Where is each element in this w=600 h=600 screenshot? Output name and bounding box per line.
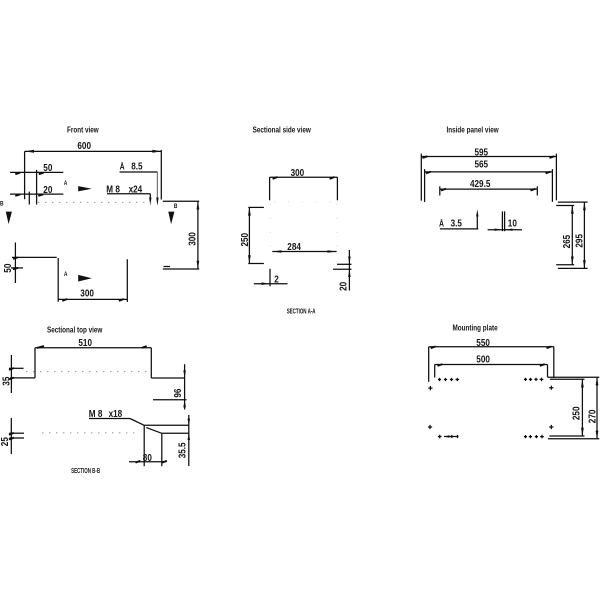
- dim vertical 25: [10, 418, 12, 454]
- dim line 35.5: [188, 415, 190, 466]
- leader line 3.5: [440, 228, 478, 230]
- extension 295 top: [558, 201, 588, 203]
- dim line 300 bottom: [58, 298, 127, 300]
- leader line M8x18: [89, 418, 130, 420]
- arrow 96 down: [183, 370, 186, 377]
- tick 565 right: [546, 172, 551, 174]
- leader vertical M8: [149, 194, 151, 199]
- svg-text:Mounting plate: Mounting plate: [453, 322, 498, 332]
- leader diagonal M8x18: [130, 419, 144, 426]
- tick 20 left: [15, 194, 20, 196]
- arrow 295 down: [583, 260, 586, 268]
- corner top edge: [144, 424, 189, 426]
- flange left top: [10, 377, 35, 379]
- dim line 295: [583, 202, 585, 268]
- arrow 250 up: [248, 208, 251, 216]
- arrow 270p up: [596, 377, 599, 385]
- dim line 2: [254, 283, 288, 285]
- svg-text:SECTION A-A: SECTION A-A: [287, 309, 316, 316]
- hidden top edge dotted: [38, 201, 152, 203]
- arrow 2: [262, 282, 270, 285]
- extension 300s left: [269, 177, 271, 200]
- svg-text:300: 300: [187, 232, 198, 246]
- extension 250 top: [248, 206, 264, 208]
- svg-text:595: 595: [475, 146, 489, 157]
- svg-text:SECTION B-B: SECTION B-B: [71, 468, 100, 475]
- cutout left edge: [57, 258, 59, 302]
- holes top-left group: [438, 378, 459, 381]
- flange right bottom: [153, 399, 187, 401]
- edge remnant right: [164, 266, 171, 268]
- tick 595 right: [550, 156, 555, 158]
- cutout right edge: [126, 259, 128, 302]
- holes top-right group: [524, 378, 543, 382]
- dim line 20 side: [348, 250, 350, 291]
- arrow 250p up: [581, 380, 584, 388]
- dim line 284: [272, 251, 336, 253]
- dim line 300 side: [270, 176, 338, 178]
- tick 500 left: [438, 364, 443, 366]
- arrow 270p down: [596, 431, 599, 439]
- tick 565 left: [426, 172, 431, 174]
- svg-text:25: 25: [0, 437, 10, 446]
- panel left edge outer: [420, 154, 422, 201]
- tick 35 top: [9, 368, 14, 370]
- extension 429.5 left: [439, 186, 441, 195]
- svg-text:35.5: 35.5: [176, 442, 187, 458]
- arrow 300 down: [197, 261, 200, 269]
- dim line 250: [248, 207, 250, 263]
- svg-text:x18: x18: [109, 408, 123, 419]
- extension 500 right: [547, 365, 549, 378]
- arrow 265 down: [571, 257, 574, 265]
- tick 50 right: [39, 173, 44, 175]
- extension line x36.6: [36, 170, 38, 205]
- dim line 250 plate: [581, 379, 583, 436]
- svg-text:M 8: M 8: [89, 408, 103, 419]
- arrow 20s up: [348, 270, 351, 277]
- arrow 20s down: [348, 257, 351, 264]
- svg-text:Front view: Front view: [67, 124, 99, 134]
- extension 429.5 right: [536, 186, 538, 195]
- extension line right of 600: [160, 150, 162, 200]
- dim line 600: [25, 150, 162, 152]
- tick 50 left: [15, 173, 20, 175]
- arrow 250 down: [248, 255, 251, 263]
- holes bottom-left arrow group: [438, 435, 459, 439]
- dim line 265: [571, 206, 573, 265]
- extension line 50 top: [12, 256, 57, 258]
- svg-text:96: 96: [172, 389, 183, 398]
- hole single bottom-right: [549, 425, 553, 429]
- svg-text:284: 284: [287, 241, 301, 252]
- body left edge: [34, 348, 36, 378]
- leader arrow 8.5: [156, 198, 158, 206]
- tick 500 right: [540, 364, 545, 366]
- dim line 550: [429, 346, 554, 348]
- svg-text:Sectional side view: Sectional side view: [253, 124, 311, 134]
- panel right edge outer: [555, 154, 557, 201]
- extension 25 bottom: [9, 437, 24, 439]
- hidden line bottom dotted: [42, 432, 139, 434]
- extension 265 bottom: [556, 264, 574, 266]
- arrow 295 up: [583, 202, 586, 210]
- tick 550 left: [431, 346, 436, 348]
- dim line 595: [421, 156, 556, 158]
- hole single top-right: [549, 386, 553, 390]
- extension 25 top: [9, 432, 24, 434]
- svg-text:565: 565: [475, 159, 489, 170]
- slot line right: [504, 211, 506, 231]
- section arrow B right: [168, 212, 174, 225]
- leader arrow M8: [149, 198, 151, 206]
- dim line 50: [10, 171, 63, 173]
- extension 20 bottom: [333, 268, 351, 270]
- tick 50b bottom: [13, 268, 18, 270]
- hidden line top dotted: [26, 371, 151, 373]
- extension 250 bottom: [549, 435, 584, 437]
- leader vertical 8.5: [156, 172, 158, 199]
- dim line 96: [184, 364, 186, 409]
- extension 250 bottom: [248, 263, 264, 265]
- body right edge: [150, 348, 152, 378]
- slot line left: [501, 211, 503, 231]
- plate step top: [548, 376, 600, 378]
- svg-text:250: 250: [571, 407, 582, 421]
- flange right top: [151, 377, 185, 379]
- dim line 80: [129, 461, 165, 463]
- arrow 284 right: [328, 250, 337, 253]
- tick 300s right: [330, 177, 335, 179]
- tick 550 right: [547, 346, 552, 348]
- extension 270 bottom: [548, 438, 599, 440]
- dim line 565: [425, 171, 553, 173]
- svg-text:Sectional top view: Sectional top view: [47, 324, 102, 334]
- svg-text:35: 35: [1, 377, 12, 386]
- svg-text:300: 300: [291, 167, 305, 178]
- tick 50b top: [13, 257, 18, 259]
- tick 20 right: [38, 194, 43, 196]
- corner inner edge: [161, 433, 163, 466]
- tick 80 right: [162, 461, 167, 463]
- tick 300s left: [273, 177, 278, 179]
- arrow 35.5 up: [188, 433, 191, 440]
- extension line 50 bottom: [11, 267, 23, 269]
- extension line left of 600: [24, 151, 26, 199]
- tick 595 left: [423, 156, 428, 158]
- section arrow A bottom: [78, 275, 92, 282]
- extension 265 top: [556, 205, 574, 207]
- svg-text:270: 270: [587, 410, 598, 424]
- svg-text:B: B: [174, 203, 178, 210]
- extension line 300 top: [163, 200, 199, 202]
- extension 20 top: [337, 263, 352, 265]
- extension 550 right: [553, 347, 555, 378]
- corner left edge: [143, 425, 145, 466]
- arrow 96 up: [183, 400, 186, 407]
- arrow 10 right: [495, 229, 503, 231]
- tick 25 bottom: [9, 438, 14, 440]
- arrow 265 up: [571, 206, 574, 214]
- panel left edge inner: [424, 169, 426, 202]
- hidden right wall dotted: [336, 204, 338, 248]
- svg-text:20: 20: [338, 282, 349, 291]
- tick 510 left: [37, 346, 44, 348]
- svg-text:Inside panel view: Inside panel view: [447, 124, 499, 134]
- arrow 250p down: [581, 428, 584, 436]
- hidden top edge dotted side: [274, 201, 334, 203]
- dim line 429.5: [440, 188, 538, 190]
- section arrow A top: [78, 186, 92, 191]
- dim line 10: [488, 229, 522, 231]
- svg-text:295: 295: [574, 234, 585, 248]
- tick 429.5 right: [531, 189, 536, 191]
- corner chamfer: [146, 428, 162, 434]
- leader vertical 3.5: [476, 215, 478, 229]
- extension line x29.3: [28, 192, 30, 205]
- svg-text:2: 2: [274, 273, 279, 284]
- holes bottom-right group: [524, 435, 544, 439]
- svg-text:600: 600: [77, 140, 91, 151]
- tick 510 right: [142, 346, 147, 348]
- extension 295 bottom: [558, 267, 588, 269]
- extension line 300 bottom: [163, 268, 199, 270]
- panel edge vertical 2: [269, 269, 271, 287]
- svg-text:20: 20: [43, 184, 52, 195]
- extension 35 top: [9, 367, 24, 369]
- extension 250 top: [550, 378, 585, 380]
- dim vertical 35: [10, 355, 12, 393]
- tick 35 bottom: [9, 378, 14, 380]
- corner inner top: [162, 432, 189, 434]
- svg-text:10: 10: [508, 218, 517, 229]
- svg-text:8.5: 8.5: [131, 161, 142, 172]
- svg-text:300: 300: [80, 288, 94, 299]
- svg-text:500: 500: [476, 354, 490, 365]
- tick 429.5 left: [441, 189, 446, 191]
- tick 80 left: [136, 461, 141, 463]
- hole single top-left: [428, 386, 432, 390]
- svg-text:3.5: 3.5: [451, 218, 462, 229]
- leader line M8: [107, 193, 150, 195]
- leader line 8.5: [120, 171, 158, 173]
- arrow 600 left: [25, 150, 34, 153]
- dim vertical 50 left bottom: [14, 243, 16, 284]
- extension 550 left: [428, 347, 430, 382]
- dim line 500: [435, 364, 548, 366]
- svg-text:B: B: [0, 201, 4, 208]
- tick 25 top: [9, 433, 14, 435]
- dim line 300 right: [197, 201, 199, 269]
- svg-text:Å: Å: [120, 162, 125, 172]
- tick 300b left: [62, 299, 67, 301]
- dim line 510: [35, 347, 151, 349]
- leader arrow 3.5 up: [476, 209, 478, 216]
- svg-text:429.5: 429.5: [470, 178, 490, 189]
- dim line 20: [10, 193, 63, 195]
- svg-text:250: 250: [239, 233, 250, 247]
- hole single bottom-left: [428, 425, 432, 429]
- hidden left wall dotted: [269, 204, 271, 256]
- arrow 300 up: [197, 202, 200, 210]
- svg-text:510: 510: [78, 337, 92, 348]
- arrow 284 left: [272, 250, 281, 253]
- arrow 10 left: [505, 229, 513, 231]
- svg-text:265: 265: [561, 235, 572, 249]
- panel right edge inner: [551, 169, 553, 202]
- extension 500 left: [434, 365, 436, 378]
- arrow 600 right: [152, 150, 161, 153]
- arrow 35.5 down: [188, 419, 191, 426]
- dim line 270 plate: [596, 377, 598, 439]
- arrowhead bottom-left cluster: [444, 435, 450, 438]
- svg-text:50: 50: [43, 162, 52, 173]
- svg-text:Å: Å: [439, 219, 444, 229]
- tick 300b right: [119, 299, 124, 301]
- section arrow B left: [6, 212, 12, 225]
- extension 300s right: [336, 177, 338, 200]
